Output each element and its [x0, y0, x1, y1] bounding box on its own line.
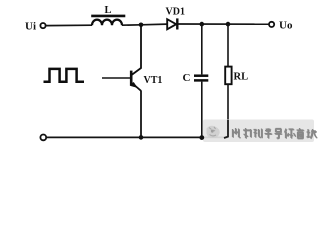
wire RL top [227, 24, 229, 66]
wire emitter down [140, 91, 142, 138]
watermark logo [207, 126, 220, 138]
watermark text 凯利讯半导体商城 [233, 128, 317, 138]
wire bottom rail [46, 136, 228, 138]
node Ui terminal [40, 23, 45, 28]
node junction collector [139, 23, 144, 28]
diode VD1 [167, 18, 177, 29]
wire Ui to inductor [46, 24, 92, 26]
char 半 [265, 128, 272, 138]
node junction RL top [226, 22, 231, 27]
svg-text:C: C [183, 72, 191, 84]
capacitor C [194, 76, 208, 81]
wire base drive [102, 77, 130, 79]
watermark text shadow [233, 129, 317, 139]
square wave source [44, 69, 85, 82]
svg-text:RL: RL [234, 72, 249, 83]
svg-text:VT1: VT1 [144, 75, 163, 86]
char 讯 [254, 129, 262, 138]
char 凯 [233, 128, 241, 137]
node junction emitter bottom [139, 135, 144, 140]
svg-text:VD1: VD1 [166, 7, 185, 18]
wire inductor to diode [122, 24, 167, 25]
char 导 [275, 129, 282, 139]
node bottom-left terminal [40, 135, 46, 141]
wire diode to Uo [178, 23, 268, 25]
node junction capacitor bottom [199, 135, 204, 140]
wire capacitor top [201, 24, 203, 74]
char 体 [285, 129, 296, 139]
wire capacitor bottom [201, 82, 203, 138]
transistor VT1 [131, 25, 141, 91]
char 利 [243, 128, 251, 138]
inductor L [91, 16, 125, 25]
char 城 [307, 129, 317, 138]
svg-text:Ui: Ui [25, 21, 36, 33]
node Uo terminal [269, 22, 274, 27]
wire RL bottom [227, 84, 229, 137]
svg-text:Uo: Uo [279, 19, 293, 31]
emitter arrowhead [131, 82, 138, 87]
node junction capacitor top [200, 22, 205, 27]
resistor RL [225, 67, 231, 85]
watermark background [203, 120, 314, 143]
char 商 [297, 128, 304, 138]
svg-text:L: L [105, 5, 112, 16]
wire RL bottom overlay [224, 120, 228, 138]
